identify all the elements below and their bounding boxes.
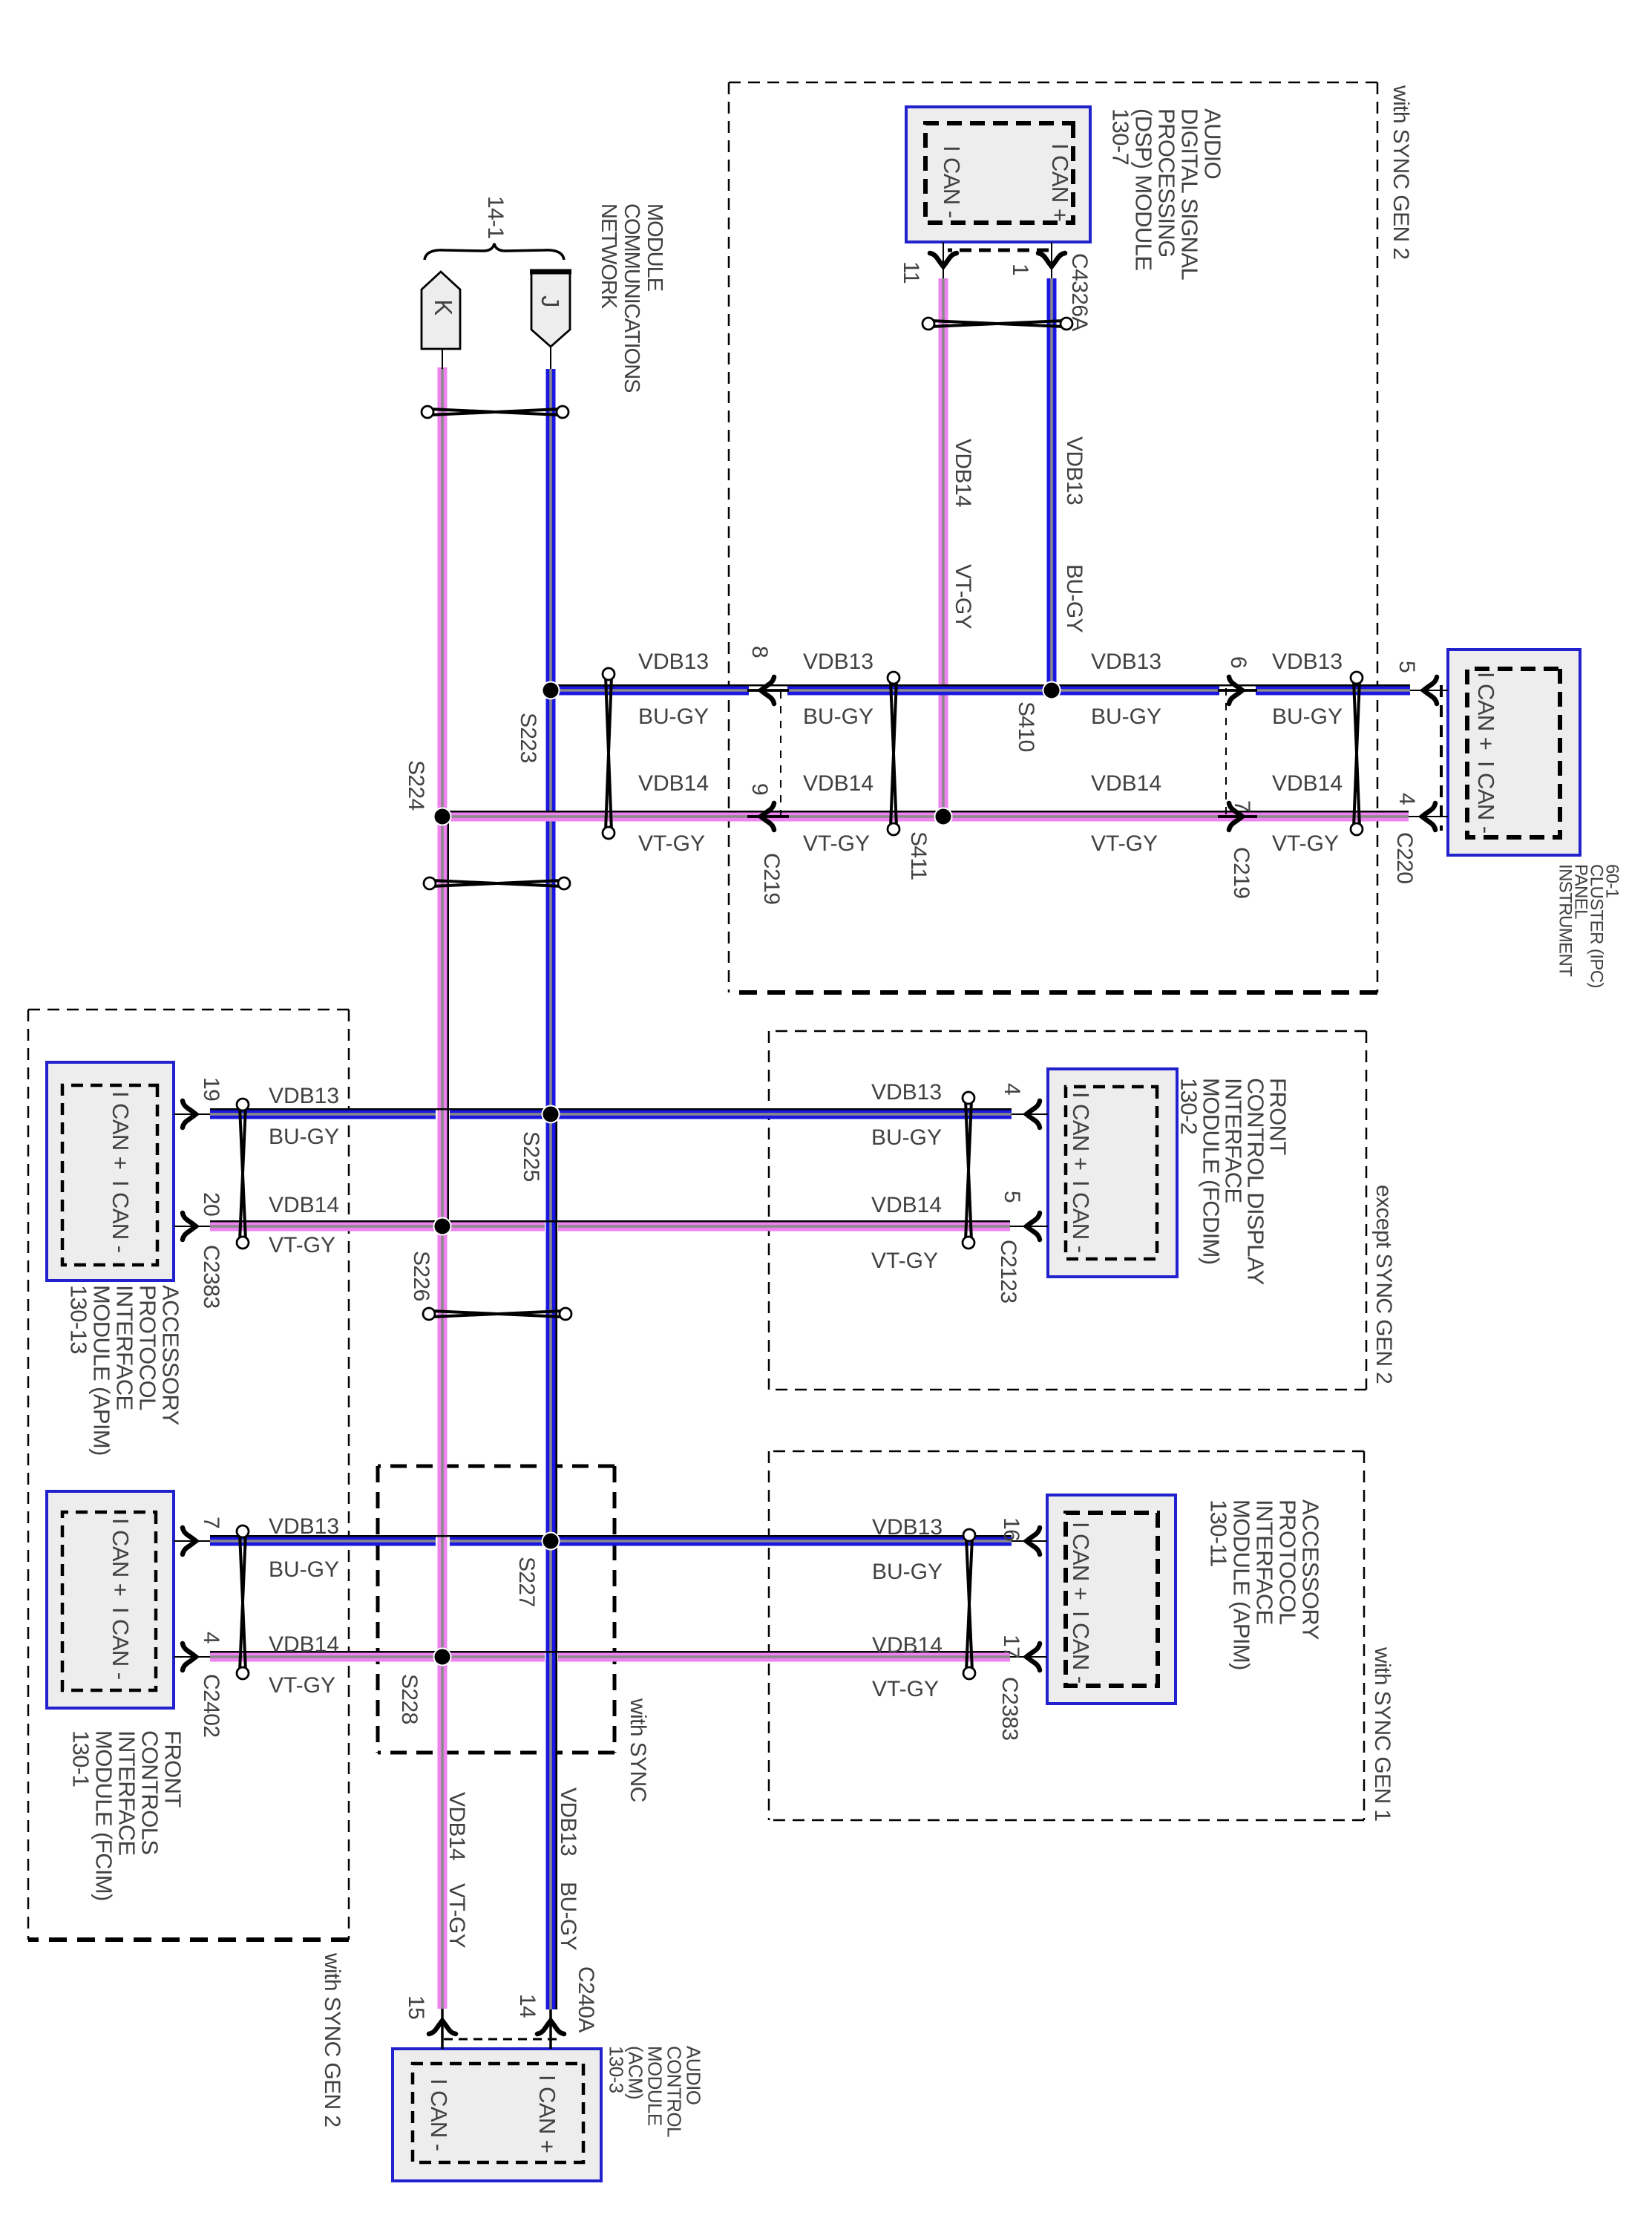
- svg-text:(DSP) MODULE: (DSP) MODULE: [1131, 108, 1157, 270]
- svg-text:MODULE: MODULE: [643, 203, 666, 292]
- wire: VDB13 BU-GY branch FCDIM pin 4 - S225 - APIM13 pin 19: [450, 1110, 1012, 1119]
- twisted pair symbols on branch pair 1: [1354, 680, 1360, 827]
- svg-text:I CAN -: I CAN -: [1473, 761, 1499, 833]
- svg-text:I CAN -: I CAN -: [1068, 1611, 1094, 1683]
- wire: VDB14 VT-GY branch from S224 up to IPC pin 4: [558, 812, 1409, 822]
- svg-text:VDB14: VDB14: [638, 771, 709, 796]
- svg-text:130-7: 130-7: [1108, 108, 1134, 165]
- svg-text:5: 5: [1000, 1191, 1024, 1203]
- dashed enclosure box: with SYNC GEN 2 (APIM 130-13 + FCIM): [28, 1010, 349, 1940]
- splice S227: [543, 1533, 560, 1550]
- svg-text:20: 20: [199, 1192, 223, 1216]
- svg-text:BU-GY: BU-GY: [556, 1882, 580, 1951]
- pin 6 arrow at C219: [1229, 677, 1242, 704]
- svg-text:VT-GY: VT-GY: [871, 1249, 938, 1273]
- svg-text:14-1: 14-1: [483, 196, 508, 239]
- svg-text:VDB14: VDB14: [871, 1193, 942, 1217]
- svg-text:VT-GY: VT-GY: [803, 831, 870, 856]
- pin 9 arrow at C219 (lower): [761, 803, 774, 830]
- wire segment edge lines: [556, 1114, 558, 2009]
- splice S411: [935, 808, 952, 825]
- svg-text:(ACM): (ACM): [624, 2046, 646, 2099]
- wire: VDB14 VT-GY branch APIM11 pin 17 - S228 - FCIM pin 4: [558, 1652, 1010, 1662]
- svg-text:VDB14: VDB14: [1091, 771, 1161, 796]
- svg-text:PROCESSING: PROCESSING: [1154, 108, 1180, 258]
- svg-text:VDB13: VDB13: [269, 1514, 339, 1539]
- svg-text:VT-GY: VT-GY: [445, 1883, 469, 1949]
- svg-text:INTERFACE: INTERFACE: [1221, 1078, 1247, 1203]
- svg-text:VDB14: VDB14: [269, 1632, 339, 1657]
- module box: AUDIO DIGITAL SIGNAL PROCESSING (DSP) MODULE 130-7: [906, 107, 1090, 242]
- svg-text:BU-GY: BU-GY: [269, 1125, 339, 1149]
- wire: VDB14 VT-GY branch FCDIM pin 5 - S226 - APIM13 pin 20: [558, 1222, 1010, 1231]
- twisted pair symbol on buses (right): [431, 1311, 563, 1317]
- svg-text:VT-GY: VT-GY: [1272, 831, 1339, 856]
- svg-text:I CAN +: I CAN +: [534, 2075, 560, 2153]
- svg-text:BU-GY: BU-GY: [269, 1557, 339, 1582]
- svg-text:9: 9: [747, 783, 772, 795]
- svg-text:AUDIO: AUDIO: [682, 2046, 704, 2104]
- svg-text:S228: S228: [397, 1674, 422, 1724]
- svg-text:FRONT: FRONT: [160, 1730, 186, 1808]
- svg-text:S410: S410: [1014, 701, 1038, 752]
- svg-text:I CAN -: I CAN -: [108, 1607, 134, 1679]
- svg-text:MODULE: MODULE: [643, 2046, 666, 2126]
- svg-text:VDB13: VDB13: [871, 1080, 942, 1105]
- svg-text:NETWORK: NETWORK: [597, 203, 620, 310]
- svg-text:I CAN -: I CAN -: [1068, 1180, 1094, 1252]
- svg-text:I CAN -: I CAN -: [108, 1180, 134, 1252]
- svg-text:19: 19: [199, 1077, 223, 1101]
- svg-text:CONTROL: CONTROL: [663, 2046, 685, 2137]
- dashed enclosure box: except SYNC GEN 2 (FCDIM): [769, 1031, 1366, 1390]
- svg-text:VDB13: VDB13: [872, 1515, 943, 1540]
- svg-text:MODULE (FCDIM): MODULE (FCDIM): [1199, 1078, 1225, 1265]
- svg-text:VT-GY: VT-GY: [951, 564, 975, 629]
- IPC pin 5 lead: [1410, 690, 1448, 691]
- svg-text:with SYNC GEN 2: with SYNC GEN 2: [1389, 85, 1413, 259]
- svg-text:BU-GY: BU-GY: [1091, 704, 1161, 729]
- svg-text:C2402: C2402: [199, 1674, 223, 1737]
- svg-text:I CAN -: I CAN -: [939, 145, 965, 217]
- svg-text:FRONT: FRONT: [1265, 1078, 1291, 1155]
- svg-text:130-11: 130-11: [1206, 1499, 1232, 1567]
- svg-text:with SYNC: with SYNC: [626, 1698, 650, 1802]
- connector C4326A dashed line at DSP: [948, 249, 1049, 252]
- svg-text:S224: S224: [404, 760, 428, 811]
- svg-text:11: 11: [899, 261, 923, 284]
- svg-text:I CAN -: I CAN -: [426, 2078, 452, 2150]
- svg-text:MODULE (APIM): MODULE (APIM): [1229, 1499, 1255, 1670]
- module box: AUDIO CONTROL MODULE (ACM) 130-3: [393, 2049, 601, 2181]
- wire: VDB13 BU-GY main bus (blue): [546, 369, 556, 2009]
- svg-text:S227: S227: [514, 1557, 539, 1607]
- svg-text:14: 14: [515, 1994, 540, 2018]
- dashed enclosure box: with SYNC GEN 1 (APIM 130-11): [769, 1451, 1364, 1820]
- svg-text:VDB14: VDB14: [803, 771, 873, 796]
- svg-text:VT-GY: VT-GY: [872, 1677, 939, 1701]
- svg-text:CONTROLS: CONTROLS: [137, 1730, 163, 1854]
- twisted pair symbols on branch pair 3: [966, 1537, 972, 1671]
- svg-text:VT-GY: VT-GY: [638, 831, 705, 856]
- off-page connector J (VDB13): [531, 270, 570, 347]
- svg-text:C2383: C2383: [997, 1677, 1022, 1740]
- svg-text:I CAN +: I CAN +: [1473, 672, 1499, 750]
- dashed enclosure box: with SYNC (splice section): [378, 1466, 614, 1753]
- svg-text:VDB14: VDB14: [269, 1193, 339, 1217]
- svg-text:with SYNC GEN 2: with SYNC GEN 2: [320, 1952, 344, 2127]
- svg-text:130-2: 130-2: [1176, 1078, 1202, 1134]
- svg-text:16: 16: [999, 1517, 1023, 1541]
- splice S228: [434, 1649, 451, 1666]
- splice S223: [543, 682, 560, 699]
- wire: VDB14 VT-GY main bus (violet): [438, 367, 448, 2009]
- svg-text:130-1: 130-1: [68, 1730, 94, 1787]
- svg-text:COMMUNICATIONS: COMMUNICATIONS: [620, 203, 643, 393]
- svg-text:15: 15: [404, 1995, 428, 2019]
- pin 7 arrow at C219: [1229, 803, 1242, 830]
- svg-text:I CAN +: I CAN +: [1068, 1092, 1094, 1170]
- svg-text:BU-GY: BU-GY: [1062, 564, 1086, 633]
- twisted pair symbol on buses (left): [430, 409, 560, 415]
- svg-text:S226: S226: [409, 1251, 433, 1301]
- wire: VDB13 BU-GY branch APIM11 pin 16 - S227 - FCIM pin 7: [450, 1537, 1012, 1546]
- svg-text:K: K: [430, 299, 457, 315]
- svg-text:BU-GY: BU-GY: [803, 704, 873, 729]
- splice S410: [1043, 682, 1061, 699]
- svg-text:except SYNC GEN 2: except SYNC GEN 2: [1371, 1185, 1396, 1384]
- lead wire K to bus: [442, 349, 443, 369]
- connector C219 (lower) dashed line: [780, 691, 781, 818]
- twisted pair symbol (DSP stub pair): [931, 321, 1064, 327]
- module box: ACCESSORY PROTOCOL INTERFACE MODULE (APIM) 130-13: [47, 1062, 174, 1280]
- svg-text:INTERFACE: INTERFACE: [112, 1285, 138, 1410]
- svg-text:VDB14: VDB14: [1272, 771, 1343, 796]
- module box: ACCESSORY PROTOCOL INTERFACE MODULE (APIM) 130-11: [1047, 1495, 1176, 1704]
- svg-text:BU-GY: BU-GY: [1272, 704, 1343, 729]
- svg-text:BU-GY: BU-GY: [638, 704, 709, 729]
- svg-text:PROTOCOL: PROTOCOL: [1275, 1499, 1301, 1625]
- splice S225: [543, 1106, 560, 1123]
- svg-text:VT-GY: VT-GY: [269, 1233, 335, 1257]
- svg-text:4: 4: [1394, 793, 1419, 805]
- twisted pair symbols on branch pair 2: [966, 1100, 971, 1240]
- svg-text:PROTOCOL: PROTOCOL: [135, 1285, 161, 1410]
- wire: VDB13 BU-GY from DSP pin 1 to S410: [1051, 242, 1052, 278]
- svg-text:INSTRUMENT: INSTRUMENT: [1556, 864, 1576, 977]
- svg-text:7: 7: [199, 1517, 223, 1528]
- svg-text:4: 4: [199, 1632, 223, 1643]
- svg-text:I CAN +: I CAN +: [1047, 143, 1073, 221]
- svg-text:1: 1: [1008, 264, 1032, 275]
- svg-text:VDB13: VDB13: [803, 650, 873, 674]
- svg-text:MODULE (APIM): MODULE (APIM): [89, 1285, 115, 1456]
- module box: FRONT CONTROL DISPLAY INTERFACE MODULE (FCDIM) 130-2: [1048, 1069, 1177, 1277]
- IPC pin 4 lead: [1409, 816, 1448, 817]
- svg-text:VDB14: VDB14: [445, 1792, 469, 1860]
- wire: VDB13 BU-GY branch from S223 up to IPC pin 5: [1256, 686, 1410, 696]
- svg-text:BU-GY: BU-GY: [872, 1560, 943, 1584]
- svg-text:VT-GY: VT-GY: [1091, 831, 1158, 856]
- svg-text:I CAN +: I CAN +: [108, 1518, 134, 1596]
- pin 8 arrow at C219 (lower): [761, 677, 774, 704]
- svg-text:C219: C219: [1229, 847, 1253, 898]
- svg-text:INTERFACE: INTERFACE: [1252, 1499, 1278, 1625]
- svg-text:130-3: 130-3: [605, 2046, 627, 2093]
- svg-text:C240A: C240A: [574, 1966, 598, 2032]
- ACM pin 14 lead: [549, 2009, 552, 2049]
- wire: VDB14 VT-GY from DSP pin 11 to S411: [943, 242, 944, 278]
- svg-text:S223: S223: [516, 713, 540, 763]
- connector C219 (upper) dashed crossing: [1225, 688, 1227, 818]
- svg-text:VDB13: VDB13: [269, 1084, 339, 1108]
- svg-text:ACCESSORY: ACCESSORY: [158, 1285, 184, 1425]
- svg-text:130-13: 130-13: [66, 1285, 92, 1354]
- svg-text:4: 4: [1000, 1083, 1024, 1095]
- module box: FRONT CONTROLS INTERFACE MODULE (FCIM) 130-1: [47, 1491, 174, 1708]
- module box: INSTRUMENT PANEL CLUSTER (IPC) 60-1: [1448, 650, 1580, 855]
- svg-text:BU-GY: BU-GY: [871, 1125, 942, 1150]
- connector C220 dashed line: [1440, 685, 1443, 831]
- svg-text:AUDIO: AUDIO: [1200, 108, 1226, 179]
- svg-text:I CAN +: I CAN +: [108, 1091, 134, 1169]
- svg-text:CONTROL DISPLAY: CONTROL DISPLAY: [1243, 1078, 1269, 1285]
- svg-text:7: 7: [1230, 800, 1254, 812]
- svg-text:S411: S411: [906, 831, 931, 880]
- svg-text:C2383: C2383: [199, 1245, 223, 1308]
- svg-text:VDB14: VDB14: [872, 1633, 943, 1658]
- svg-text:I CAN +: I CAN +: [1068, 1522, 1094, 1600]
- splice S224: [434, 808, 451, 825]
- off-page connector K (VDB14): [422, 272, 460, 349]
- svg-text:VDB14: VDB14: [951, 439, 975, 507]
- svg-text:C220: C220: [1392, 832, 1417, 883]
- svg-text:with SYNC GEN 1: with SYNC GEN 1: [1370, 1646, 1394, 1821]
- svg-text:VDB13: VDB13: [1062, 436, 1086, 505]
- svg-text:ACCESSORY: ACCESSORY: [1298, 1499, 1324, 1640]
- svg-text:INTERFACE: INTERFACE: [114, 1730, 140, 1856]
- page reference brace 14-1: [425, 243, 564, 260]
- svg-text:C2123: C2123: [996, 1240, 1020, 1303]
- svg-text:8: 8: [747, 646, 772, 658]
- svg-text:DIGITAL SIGNAL: DIGITAL SIGNAL: [1177, 108, 1203, 280]
- splice S226: [434, 1218, 451, 1235]
- connector C240A dashed line: [439, 2038, 557, 2041]
- svg-text:C219: C219: [759, 853, 784, 904]
- svg-text:5: 5: [1394, 661, 1419, 673]
- svg-text:VDB13: VDB13: [1272, 650, 1343, 674]
- dashed enclosure box: with SYNC GEN 2 (DSP+IPC network section): [729, 82, 1377, 992]
- svg-text:MODULE (FCIM): MODULE (FCIM): [91, 1730, 117, 1901]
- svg-text:VDB13: VDB13: [556, 1787, 580, 1856]
- svg-text:J: J: [537, 295, 564, 307]
- svg-text:VDB13: VDB13: [1091, 650, 1161, 674]
- svg-text:6: 6: [1226, 656, 1251, 668]
- svg-text:VDB13: VDB13: [638, 650, 709, 674]
- twisted pair symbol on buses (middle): [432, 880, 562, 886]
- lead wire J to bus: [550, 347, 551, 369]
- svg-text:S225: S225: [519, 1131, 543, 1182]
- svg-text:17: 17: [999, 1635, 1023, 1658]
- svg-text:VT-GY: VT-GY: [269, 1673, 335, 1698]
- ACM pin 15 lead: [441, 2009, 444, 2049]
